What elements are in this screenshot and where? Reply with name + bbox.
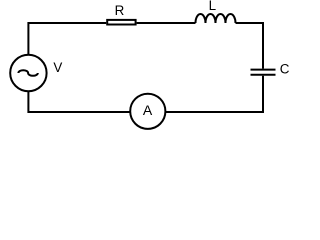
capacitor C bottom plate: [251, 74, 276, 76]
wire: ammeter left side, bottom-left corner, up to voltage source bottom: [28, 92, 129, 113]
inductor L: [196, 14, 236, 23]
ammeter A: [130, 94, 165, 129]
svg-text:R: R: [115, 3, 125, 18]
wire: top-left corner, from voltage source top up and right to resistor left lead: [28, 23, 106, 55]
svg-text:A: A: [143, 102, 153, 118]
capacitor C top plate: [251, 69, 276, 71]
svg-text:V: V: [53, 60, 62, 75]
voltage source V (AC): [10, 55, 46, 91]
resistor R: [107, 20, 135, 25]
svg-text:L: L: [209, 0, 216, 13]
svg-text:C: C: [280, 61, 290, 76]
sine wave inside voltage source: [18, 70, 37, 76]
wire: inductor right end, top-right corner, down to capacitor top plate: [236, 23, 264, 69]
wire: capacitor bottom plate down, bottom-right corner, left to ammeter right side: [166, 76, 263, 112]
wire: resistor right lead to inductor left end: [137, 22, 196, 24]
